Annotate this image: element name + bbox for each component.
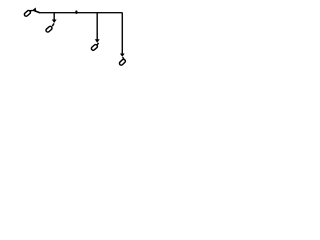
component 2: tilted two-terminal symbol (capsule body) [45, 26, 52, 33]
wire: lead from component 3 to arrowhead 3 [97, 43, 99, 45]
wire: short diagonal from arrowhead 1 base to bus start [35, 11, 40, 13]
component 1: tilted two-terminal symbol (capsule body) [24, 10, 31, 17]
arrowhead pointing down toward component 3 [95, 39, 100, 43]
arrowhead pointing down toward component 2 [52, 20, 57, 23]
wire: lead from component 4 to arrowhead 4 [123, 57, 125, 60]
arrowhead pointing down toward component 4 [120, 53, 125, 56]
wire: vertical drop at x=97 [96, 13, 98, 40]
wire: lead from component 2 to arrowhead 2 [52, 23, 54, 26]
wire: lead from component 1 to arrowhead 1 [30, 10, 33, 12]
background [0, 0, 150, 76]
junction dot on bus at x=76 [75, 11, 77, 14]
arrowhead pointing left toward component 1 [31, 7, 36, 12]
component 3: tilted two-terminal symbol (capsule body) [91, 44, 98, 51]
wire: vertical drop at x=54 [53, 13, 55, 21]
wire: top horizontal bus with right corner dropping down [39, 13, 123, 54]
component 4: tilted two-terminal symbol (capsule body) [119, 59, 126, 66]
